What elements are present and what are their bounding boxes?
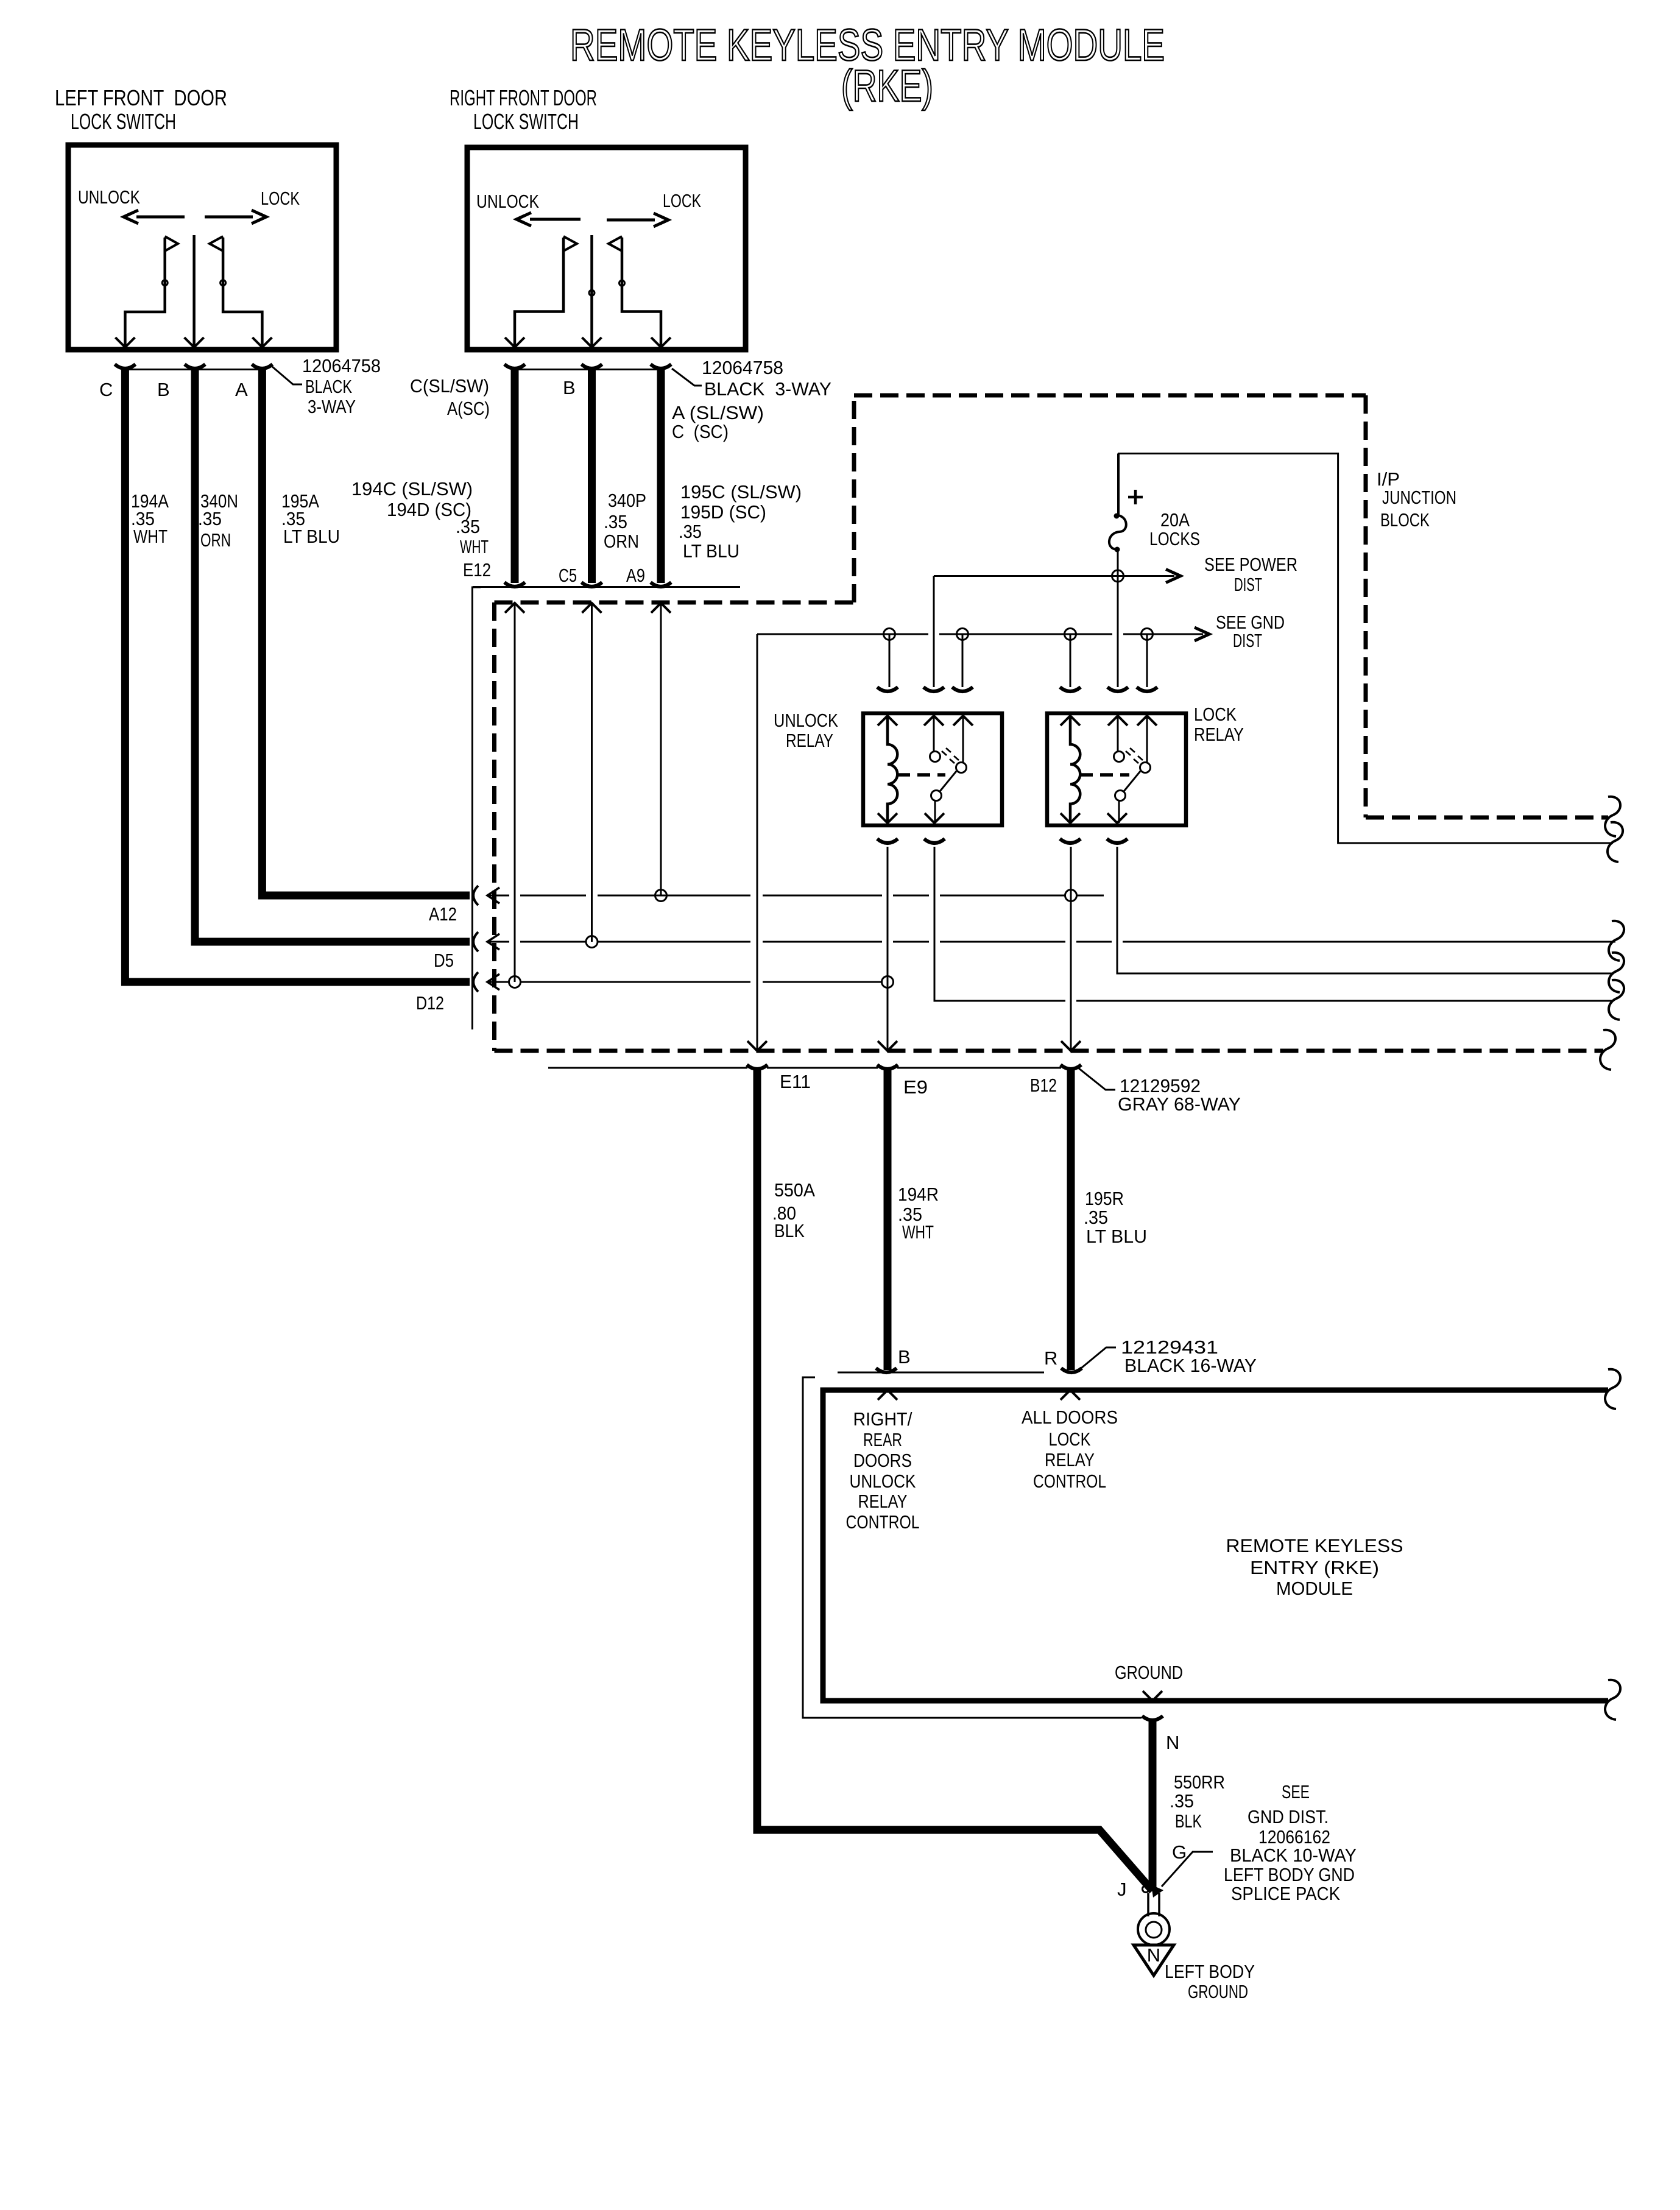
svg-text:GRAY 68-WAY: GRAY 68-WAY — [1118, 1093, 1241, 1115]
svg-text:194R: 194R — [898, 1184, 939, 1205]
svg-text:550A: 550A — [774, 1179, 815, 1201]
svg-text:REAR: REAR — [863, 1429, 902, 1450]
svg-text:A12: A12 — [429, 903, 457, 925]
svg-text:UNLOCK: UNLOCK — [774, 710, 838, 731]
svg-text:LEFT BODY GND: LEFT BODY GND — [1224, 1864, 1355, 1885]
svg-text:12064758: 12064758 — [302, 355, 381, 376]
svg-text:J: J — [1117, 1879, 1127, 1900]
svg-text:B: B — [157, 379, 170, 400]
svg-text:D5: D5 — [434, 950, 454, 971]
svg-text:LOCK SWITCH: LOCK SWITCH — [473, 109, 579, 134]
svg-text:LEFT BODY: LEFT BODY — [1165, 1961, 1255, 1982]
svg-text:LT BLU: LT BLU — [1086, 1226, 1147, 1247]
svg-text:UNLOCK: UNLOCK — [476, 191, 539, 212]
svg-text:A: A — [235, 379, 248, 400]
svg-text:195D (SC): 195D (SC) — [680, 501, 766, 523]
svg-text:194C (SL/SW): 194C (SL/SW) — [351, 478, 473, 500]
svg-text:UNLOCK: UNLOCK — [850, 1470, 916, 1492]
svg-text:12064758: 12064758 — [702, 357, 783, 378]
svg-text:N: N — [1147, 1944, 1160, 1966]
svg-text:BLACK 16-WAY: BLACK 16-WAY — [1124, 1355, 1257, 1376]
svg-text:GND DIST.: GND DIST. — [1248, 1806, 1329, 1827]
svg-text:DOORS: DOORS — [853, 1450, 912, 1471]
svg-text:.35: .35 — [1170, 1790, 1194, 1812]
svg-text:ENTRY (RKE): ENTRY (RKE) — [1250, 1557, 1379, 1578]
svg-text:ORN: ORN — [200, 529, 231, 551]
svg-text:E12: E12 — [463, 559, 491, 581]
svg-text:195C (SL/SW): 195C (SL/SW) — [680, 481, 802, 503]
svg-text:CONTROL: CONTROL — [1033, 1470, 1106, 1492]
svg-text:BLACK 10-WAY: BLACK 10-WAY — [1230, 1845, 1357, 1866]
svg-text:.35: .35 — [198, 508, 222, 529]
svg-text:SPLICE PACK: SPLICE PACK — [1231, 1883, 1340, 1904]
svg-text:LOCK SWITCH: LOCK SWITCH — [71, 109, 176, 134]
svg-text:C (SC): C (SC) — [672, 421, 729, 442]
svg-text:RELAY: RELAY — [858, 1491, 908, 1512]
svg-text:340P: 340P — [608, 490, 646, 511]
svg-text:3-WAY: 3-WAY — [308, 396, 356, 417]
svg-text:MODULE: MODULE — [1276, 1578, 1353, 1599]
svg-text:BLK: BLK — [774, 1220, 805, 1241]
svg-text:.35: .35 — [456, 516, 480, 537]
svg-text:20A: 20A — [1160, 509, 1190, 531]
svg-text:A (SL/SW): A (SL/SW) — [672, 402, 764, 423]
svg-text:A(SC): A(SC) — [447, 398, 490, 419]
svg-text:SEE POWER: SEE POWER — [1204, 554, 1297, 575]
svg-text:GROUND: GROUND — [1115, 1662, 1183, 1683]
svg-text:C5: C5 — [559, 565, 577, 586]
svg-text:(RKE): (RKE) — [841, 62, 933, 111]
svg-text:UNLOCK: UNLOCK — [78, 186, 140, 208]
svg-text:WHT: WHT — [460, 536, 489, 557]
svg-text:C: C — [99, 379, 113, 400]
svg-text:GROUND: GROUND — [1188, 1981, 1248, 2002]
svg-text:REMOTE KEYLESS: REMOTE KEYLESS — [1226, 1535, 1403, 1556]
svg-text:E11: E11 — [780, 1071, 811, 1092]
svg-text:LT BLU: LT BLU — [683, 540, 739, 562]
svg-text:C(SL/SW): C(SL/SW) — [410, 375, 489, 397]
svg-text:B: B — [563, 377, 576, 398]
svg-text:RELAY: RELAY — [786, 730, 833, 751]
svg-text:JUNCTION: JUNCTION — [1382, 487, 1456, 508]
svg-text:LOCKS: LOCKS — [1149, 528, 1200, 549]
svg-text:.35: .35 — [1084, 1207, 1108, 1228]
svg-text:ORN: ORN — [604, 531, 639, 552]
svg-text:WHT: WHT — [902, 1221, 934, 1243]
svg-text:LEFT FRONT DOOR: LEFT FRONT DOOR — [55, 85, 227, 110]
svg-text:195R: 195R — [1085, 1188, 1124, 1209]
svg-text:LOCK: LOCK — [1194, 704, 1237, 725]
svg-text:LOCK: LOCK — [663, 190, 701, 211]
svg-text:BLK: BLK — [1175, 1810, 1202, 1832]
svg-text:RIGHT FRONT DOOR: RIGHT FRONT DOOR — [450, 85, 597, 110]
svg-text:CONTROL: CONTROL — [846, 1511, 920, 1533]
svg-text:RELAY: RELAY — [1045, 1449, 1095, 1470]
svg-text:LOCK: LOCK — [261, 188, 300, 209]
svg-text:ALL DOORS: ALL DOORS — [1022, 1407, 1118, 1428]
svg-text:RELAY: RELAY — [1194, 724, 1244, 745]
svg-text:N: N — [1166, 1732, 1179, 1753]
svg-text:RIGHT/: RIGHT/ — [853, 1408, 912, 1430]
svg-text:BLACK: BLACK — [305, 376, 352, 397]
svg-text:.35: .35 — [604, 511, 627, 532]
svg-text:R: R — [1044, 1347, 1057, 1369]
svg-text:E9: E9 — [903, 1076, 928, 1098]
svg-text:B12: B12 — [1030, 1075, 1057, 1096]
svg-text:B: B — [898, 1346, 911, 1368]
svg-text:DIST: DIST — [1234, 574, 1262, 595]
svg-text:D12: D12 — [416, 992, 444, 1014]
svg-text:G: G — [1172, 1841, 1187, 1863]
svg-text:BLACK 3-WAY: BLACK 3-WAY — [704, 378, 831, 400]
svg-text:SEE: SEE — [1282, 1781, 1310, 1802]
svg-text:LT BLU: LT BLU — [283, 526, 340, 547]
svg-text:BLOCK: BLOCK — [1380, 509, 1430, 531]
svg-text:WHT: WHT — [133, 526, 168, 547]
svg-text:550RR: 550RR — [1174, 1771, 1225, 1793]
svg-text:DIST: DIST — [1233, 630, 1262, 651]
svg-text:A9: A9 — [626, 565, 645, 586]
svg-text:LOCK: LOCK — [1049, 1428, 1091, 1450]
svg-text:.35: .35 — [679, 521, 702, 542]
